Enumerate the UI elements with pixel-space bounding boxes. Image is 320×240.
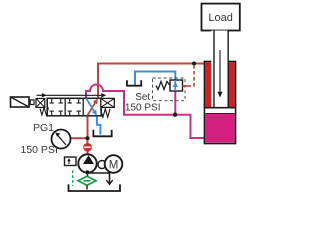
node: gauge junction xyxy=(86,136,90,140)
piston xyxy=(205,108,234,114)
coupler: red test point on P line xyxy=(83,143,92,152)
tank T1 under valve xyxy=(93,130,111,137)
DV1 right proportional box with X xyxy=(101,98,115,107)
relief valve RV1 body xyxy=(170,80,183,91)
pump control box with arrow xyxy=(65,157,77,166)
wire: pump suction / drain (black) xyxy=(87,173,89,177)
filter F1 (green strainer) xyxy=(78,176,96,185)
svg-text:150 PSI: 150 PSI xyxy=(125,102,161,113)
DV1 left coupler xyxy=(30,100,34,105)
DV1 left spring xyxy=(40,108,49,116)
wire: pilot sensing line dashed (dark red) xyxy=(183,65,195,86)
wire: relief junction to cylinder cap end (magenta) xyxy=(175,115,205,138)
wire: B line from valve to relief junction (magenta) with crossover arch xyxy=(86,85,175,115)
motion arrow (down) xyxy=(219,50,221,92)
wire: relief valve to tank (blue) xyxy=(135,72,175,86)
svg-text:M: M xyxy=(109,159,119,171)
wire: valve T port to tank (blue zigzag) xyxy=(97,116,101,135)
relief valve RV1 spring xyxy=(156,82,170,90)
relief valve RV1 enclosure (dashed box) xyxy=(153,78,186,101)
node: relief junction dot xyxy=(173,113,177,117)
DV1 right cell crossed flow: P to A (red) xyxy=(87,101,96,116)
DV1 proportional rail xyxy=(37,94,106,96)
wire: relief valve output down to junction (magenta) xyxy=(174,91,176,115)
tank T2: relief drain tank xyxy=(127,80,141,86)
cylinder C1 rod-side fluid (red) xyxy=(205,62,235,107)
node: pump suction junction xyxy=(85,170,89,174)
DV1 left cell blocked ports xyxy=(50,98,63,116)
piston rod xyxy=(211,31,228,108)
shaft coupler circle xyxy=(98,161,106,169)
wire: pressure line from valve port A to cylinder rod end (red) xyxy=(98,64,205,99)
motor M1 xyxy=(105,155,123,173)
svg-text:150 PSI: 150 PSI xyxy=(21,144,58,156)
node: pilot tap junction on red line xyxy=(192,62,196,66)
tank T3 bottom reservoir xyxy=(69,184,121,191)
pump P1 xyxy=(78,154,96,172)
load box xyxy=(202,4,240,31)
gauge PG1 xyxy=(52,130,71,149)
DV1 left proportional box with X xyxy=(36,99,45,108)
cylinder C1 cap-side fluid (magenta) xyxy=(205,114,234,143)
DV1 middle cell blocked ports xyxy=(68,98,81,116)
DV1 left solenoid box xyxy=(11,97,30,107)
cylinder C1 body xyxy=(205,62,236,144)
relief valve RV1 pilot stub (dark red) xyxy=(183,85,189,87)
directional valve DV1 body xyxy=(47,98,101,116)
DV1 right spring xyxy=(101,109,111,117)
wire: filter to tank xyxy=(86,185,88,189)
svg-text:Load: Load xyxy=(208,12,232,24)
svg-text:PG1: PG1 xyxy=(33,122,54,134)
wire: gauge line (red) xyxy=(71,137,88,139)
relief valve RV1 flow arrow (blue, up) xyxy=(174,80,176,91)
wire: P line from valve to pump (red) xyxy=(87,116,89,155)
DV1 right cell crossed flow: B to T (blue) xyxy=(86,98,95,113)
